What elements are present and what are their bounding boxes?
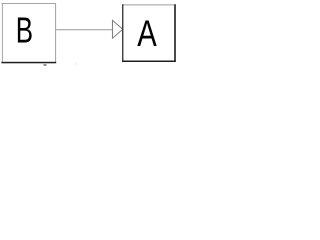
node B border left bbox=[2, 3, 3, 62]
node A border right bbox=[174, 4, 176, 62]
open arrowhead (generalization triangle) bbox=[112, 20, 122, 38]
label A bbox=[137, 14, 157, 55]
label B bbox=[16, 11, 33, 51]
wire from B to arrowhead bbox=[56, 29, 113, 30]
faint artifact dot below wire bbox=[76, 63, 77, 64]
background bbox=[0, 0, 205, 66]
node A box fill bbox=[123, 5, 175, 61]
node B border top bbox=[2, 3, 57, 4]
svg-text:A: A bbox=[137, 14, 157, 55]
node A border bottom bbox=[122, 61, 176, 63]
svg-text:B: B bbox=[16, 11, 33, 51]
node B border bottom bbox=[1, 62, 56, 64]
node B border right bbox=[55, 3, 56, 62]
node A border top bbox=[122, 4, 176, 5]
node A border left bbox=[122, 4, 123, 62]
artifact dot below node B bbox=[43, 64, 46, 66]
node B box fill bbox=[2, 3, 56, 62]
